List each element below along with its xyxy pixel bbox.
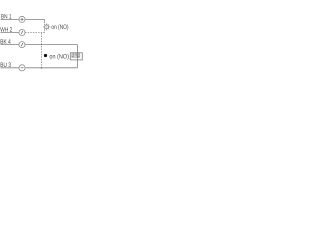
node label BK 4 [1,39,11,43]
terminal circle pin 3 (-) [19,65,25,71]
node label WH 2 [0,27,12,31]
wire BK row (pin 4, to pnp amp) [1,45,78,53]
LED state dot (on) [44,54,47,57]
wire WH row (pin 2) [1,32,45,34]
wire BU row (pin 3, - supply) [1,60,78,68]
wire BN row (pin 1, + supply) [1,20,45,22]
terminal circle pin 4 (switching output) [19,42,25,48]
dashed link wire (WH node down to BU node) [41,33,43,69]
terminal circle pin 1 (+) [19,16,25,22]
amplifier box (pnp) [70,53,82,60]
crossing tick at BU wire [41,67,43,69]
value label: on (NO) beside LED [52,24,69,30]
node label BN 1 [1,14,11,18]
LED lamp (indicator, NO output) [43,23,50,30]
crossing tick at BK wire [41,44,43,45]
value label: on (NO) beside dot [50,54,69,60]
terminal circle pin 2 (switching output) [19,29,25,35]
wire LED to WH junction (dashed) [44,30,46,33]
node label BU 3 [1,62,11,67]
wire BN corner down to LED (dashed) [44,22,46,25]
